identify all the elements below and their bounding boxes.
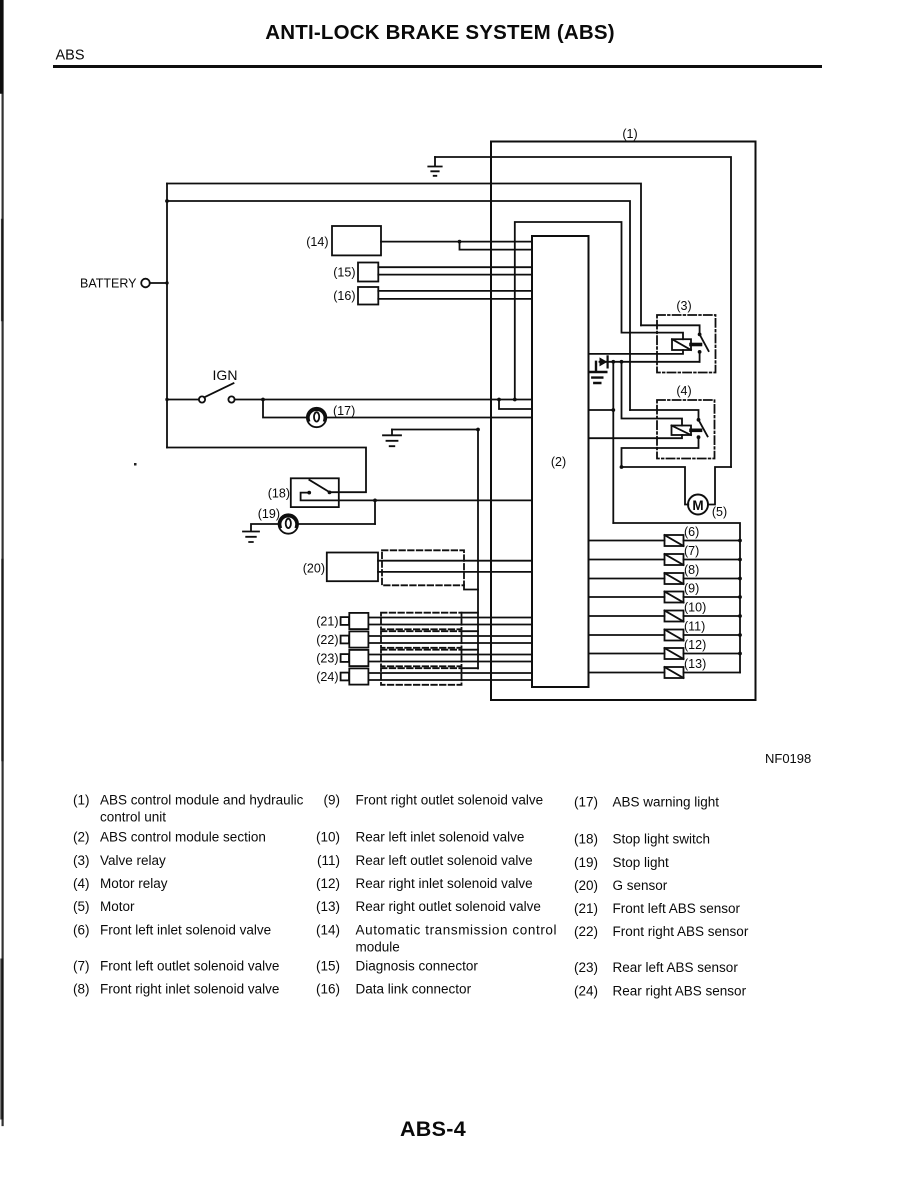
wire sensor (22) pair to module <box>368 636 532 643</box>
svg-text:(3): (3) <box>73 853 90 868</box>
svg-text:M: M <box>692 498 703 513</box>
wire shield stub (21) <box>462 612 479 614</box>
wire battery bus to stop light switch <box>167 448 366 493</box>
motor M (5) <box>688 495 708 515</box>
svg-text:(20): (20) <box>574 878 598 893</box>
wire IGN feed to control module <box>235 399 532 401</box>
node battery supply bus <box>166 184 168 448</box>
relay (4) contact <box>630 410 699 419</box>
svg-text:(19): (19) <box>258 507 280 521</box>
shield (24) dashed screen <box>381 668 462 685</box>
wire second supply line to motor relay <box>167 201 630 410</box>
svg-text:Rear left ABS sensor: Rear left ABS sensor <box>613 960 739 975</box>
svg-text:(7): (7) <box>73 959 90 974</box>
svg-text:(2): (2) <box>73 830 90 845</box>
svg-text:(9): (9) <box>684 582 699 596</box>
svg-text:(22): (22) <box>574 924 598 939</box>
ground (relay circuit) <box>589 362 606 383</box>
svg-text:(23): (23) <box>574 960 598 975</box>
svg-text:G sensor: G sensor <box>613 878 668 893</box>
svg-text:ABS control module section: ABS control module section <box>100 830 266 845</box>
wire sensor (24) pair to module <box>368 673 532 680</box>
svg-text:ABS: ABS <box>56 48 85 64</box>
svg-text:(12): (12) <box>684 638 706 652</box>
svg-text:(22): (22) <box>316 633 338 647</box>
relay (3) coil <box>672 339 691 350</box>
svg-text:(20): (20) <box>303 562 325 576</box>
wire sensor (21) pair to module <box>368 618 532 625</box>
wire ground line to sensor shield drain <box>392 429 478 431</box>
scan edge artifact <box>1 0 3 1125</box>
svg-text:(24): (24) <box>574 984 598 999</box>
svg-text:Rear right outlet solenoid val: Rear right outlet solenoid valve <box>356 899 541 914</box>
svg-text:(6): (6) <box>73 923 90 938</box>
wire IGN branch stub into module <box>499 400 532 410</box>
svg-text:Motor relay: Motor relay <box>100 876 168 891</box>
shield (21) dashed screen <box>381 613 462 630</box>
svg-text:BATTERY: BATTERY <box>80 277 137 291</box>
ground (near warning light) <box>383 430 401 447</box>
header rule <box>53 65 822 68</box>
svg-text:(18): (18) <box>574 832 598 847</box>
svg-text:IGN: IGN <box>213 367 238 383</box>
diode D1 <box>600 357 608 366</box>
wire shield stub (24) <box>462 667 479 669</box>
shield (20) dashed screen <box>382 550 464 585</box>
wire (14) to module pair <box>381 241 532 243</box>
svg-text:Front right ABS sensor: Front right ABS sensor <box>613 924 749 939</box>
ground (stop light) <box>243 532 259 543</box>
wire top ground line to motor return <box>435 157 731 467</box>
svg-text:(18): (18) <box>268 487 290 501</box>
svg-text:Data link connector: Data link connector <box>356 982 472 997</box>
svg-text:(14): (14) <box>306 235 328 249</box>
svg-text:ABS-4: ABS-4 <box>400 1117 466 1141</box>
svg-text:(4): (4) <box>676 384 691 398</box>
svg-text:Rear left inlet solenoid valve: Rear left inlet solenoid valve <box>356 830 525 845</box>
svg-text:Stop light switch: Stop light switch <box>613 832 711 847</box>
relay (4) coil <box>672 426 692 436</box>
svg-text:(13): (13) <box>684 657 706 671</box>
svg-text:ABS warning light: ABS warning light <box>613 795 720 810</box>
svg-text:Rear right ABS sensor: Rear right ABS sensor <box>613 984 747 999</box>
wire flyback/ground line (valve relay output) <box>600 361 700 363</box>
lamp (17) ABS warning light <box>263 400 307 418</box>
ABS control module section box (2) <box>532 236 589 687</box>
wire relay (4) coil return to module <box>589 435 683 438</box>
svg-text:(14): (14) <box>316 923 340 938</box>
wire shield stub (23) <box>462 649 479 651</box>
svg-text:(5): (5) <box>712 505 727 519</box>
svg-text:(1): (1) <box>622 127 637 141</box>
svg-text:(23): (23) <box>316 652 338 666</box>
wire G sensor signals to module <box>378 560 532 562</box>
svg-text:(16): (16) <box>316 982 340 997</box>
ground (top, inside unit) <box>428 157 441 176</box>
svg-text:(5): (5) <box>73 899 90 914</box>
svg-text:control unit: control unit <box>100 810 166 825</box>
wire relay (4) output to motor <box>622 437 699 467</box>
wire motor right lead to ground line <box>708 467 731 505</box>
svg-text:ABS control module and hydraul: ABS control module and hydraulic <box>100 793 304 808</box>
svg-text:Diagnosis connector: Diagnosis connector <box>356 959 479 974</box>
wire relay output to motor relay coil <box>622 362 683 426</box>
svg-text:(16): (16) <box>333 289 355 303</box>
svg-text:(17): (17) <box>333 404 355 418</box>
svg-text:(8): (8) <box>684 563 699 577</box>
wire IGN to relay coils (loop over module) <box>515 222 683 400</box>
svg-text:Rear left outlet solenoid valv: Rear left outlet solenoid valve <box>356 853 533 868</box>
svg-text:(10): (10) <box>684 601 706 615</box>
svg-text:Front left outlet solenoid val: Front left outlet solenoid valve <box>100 959 279 974</box>
svg-text:(1): (1) <box>73 793 90 808</box>
wire (15) pair to module <box>378 267 532 274</box>
wire top supply line to valve relay <box>167 184 641 326</box>
wire shield stub (20) <box>464 585 478 589</box>
svg-text:(4): (4) <box>73 876 90 891</box>
svg-text:ANTI-LOCK BRAKE SYSTEM (ABS): ANTI-LOCK BRAKE SYSTEM (ABS) <box>265 21 615 44</box>
svg-text:(8): (8) <box>73 982 90 997</box>
svg-text:Automatic transmission control: Automatic transmission control <box>356 923 557 938</box>
svg-text:(3): (3) <box>676 299 691 313</box>
svg-text:Front right inlet solenoid val: Front right inlet solenoid valve <box>100 982 279 997</box>
shield (23) dashed screen <box>381 650 462 667</box>
svg-text:Motor: Motor <box>100 899 135 914</box>
svg-text:(13): (13) <box>316 899 340 914</box>
wire relay (3) coil return to module <box>589 350 684 354</box>
svg-text:(12): (12) <box>316 876 340 891</box>
svg-text:(15): (15) <box>333 266 355 280</box>
svg-text:(19): (19) <box>574 855 598 870</box>
svg-text:(10): (10) <box>316 830 340 845</box>
svg-text:(17): (17) <box>574 795 598 810</box>
svg-text:(24): (24) <box>316 670 338 684</box>
svg-text:module: module <box>356 940 400 955</box>
svg-text:(15): (15) <box>316 959 340 974</box>
wire shield stub (22) <box>462 630 479 632</box>
wire sensor (23) pair to module <box>368 655 532 662</box>
svg-text:NF0198: NF0198 <box>765 751 811 766</box>
svg-text:Valve relay: Valve relay <box>100 853 166 868</box>
wire ground bus down to solenoid return <box>612 362 614 523</box>
svg-text:(21): (21) <box>316 615 338 629</box>
relay (3) contact <box>641 325 700 333</box>
svg-text:Front left inlet solenoid valv: Front left inlet solenoid valve <box>100 923 271 938</box>
svg-text:(7): (7) <box>684 544 699 558</box>
wire module pin to ground bus <box>589 409 614 411</box>
wire (16) pair to module <box>378 291 532 299</box>
svg-text:Front left ABS sensor: Front left ABS sensor <box>613 901 741 916</box>
scan speck <box>134 463 137 466</box>
wire solenoid return bus <box>613 523 740 673</box>
svg-text:(6): (6) <box>684 525 699 539</box>
svg-text:(11): (11) <box>684 620 705 634</box>
svg-text:(9): (9) <box>324 793 341 808</box>
svg-text:Rear right inlet solenoid valv: Rear right inlet solenoid valve <box>356 876 533 891</box>
svg-text:(21): (21) <box>574 901 598 916</box>
svg-text:(2): (2) <box>551 455 566 469</box>
svg-text:Stop light: Stop light <box>613 855 670 870</box>
wire stop light switch output to module <box>339 499 532 501</box>
shield (22) dashed screen <box>381 631 462 648</box>
wire sensor shield drain <box>477 430 479 669</box>
svg-text:(11): (11) <box>317 853 340 868</box>
svg-text:Front right outlet solenoid va: Front right outlet solenoid valve <box>356 793 544 808</box>
